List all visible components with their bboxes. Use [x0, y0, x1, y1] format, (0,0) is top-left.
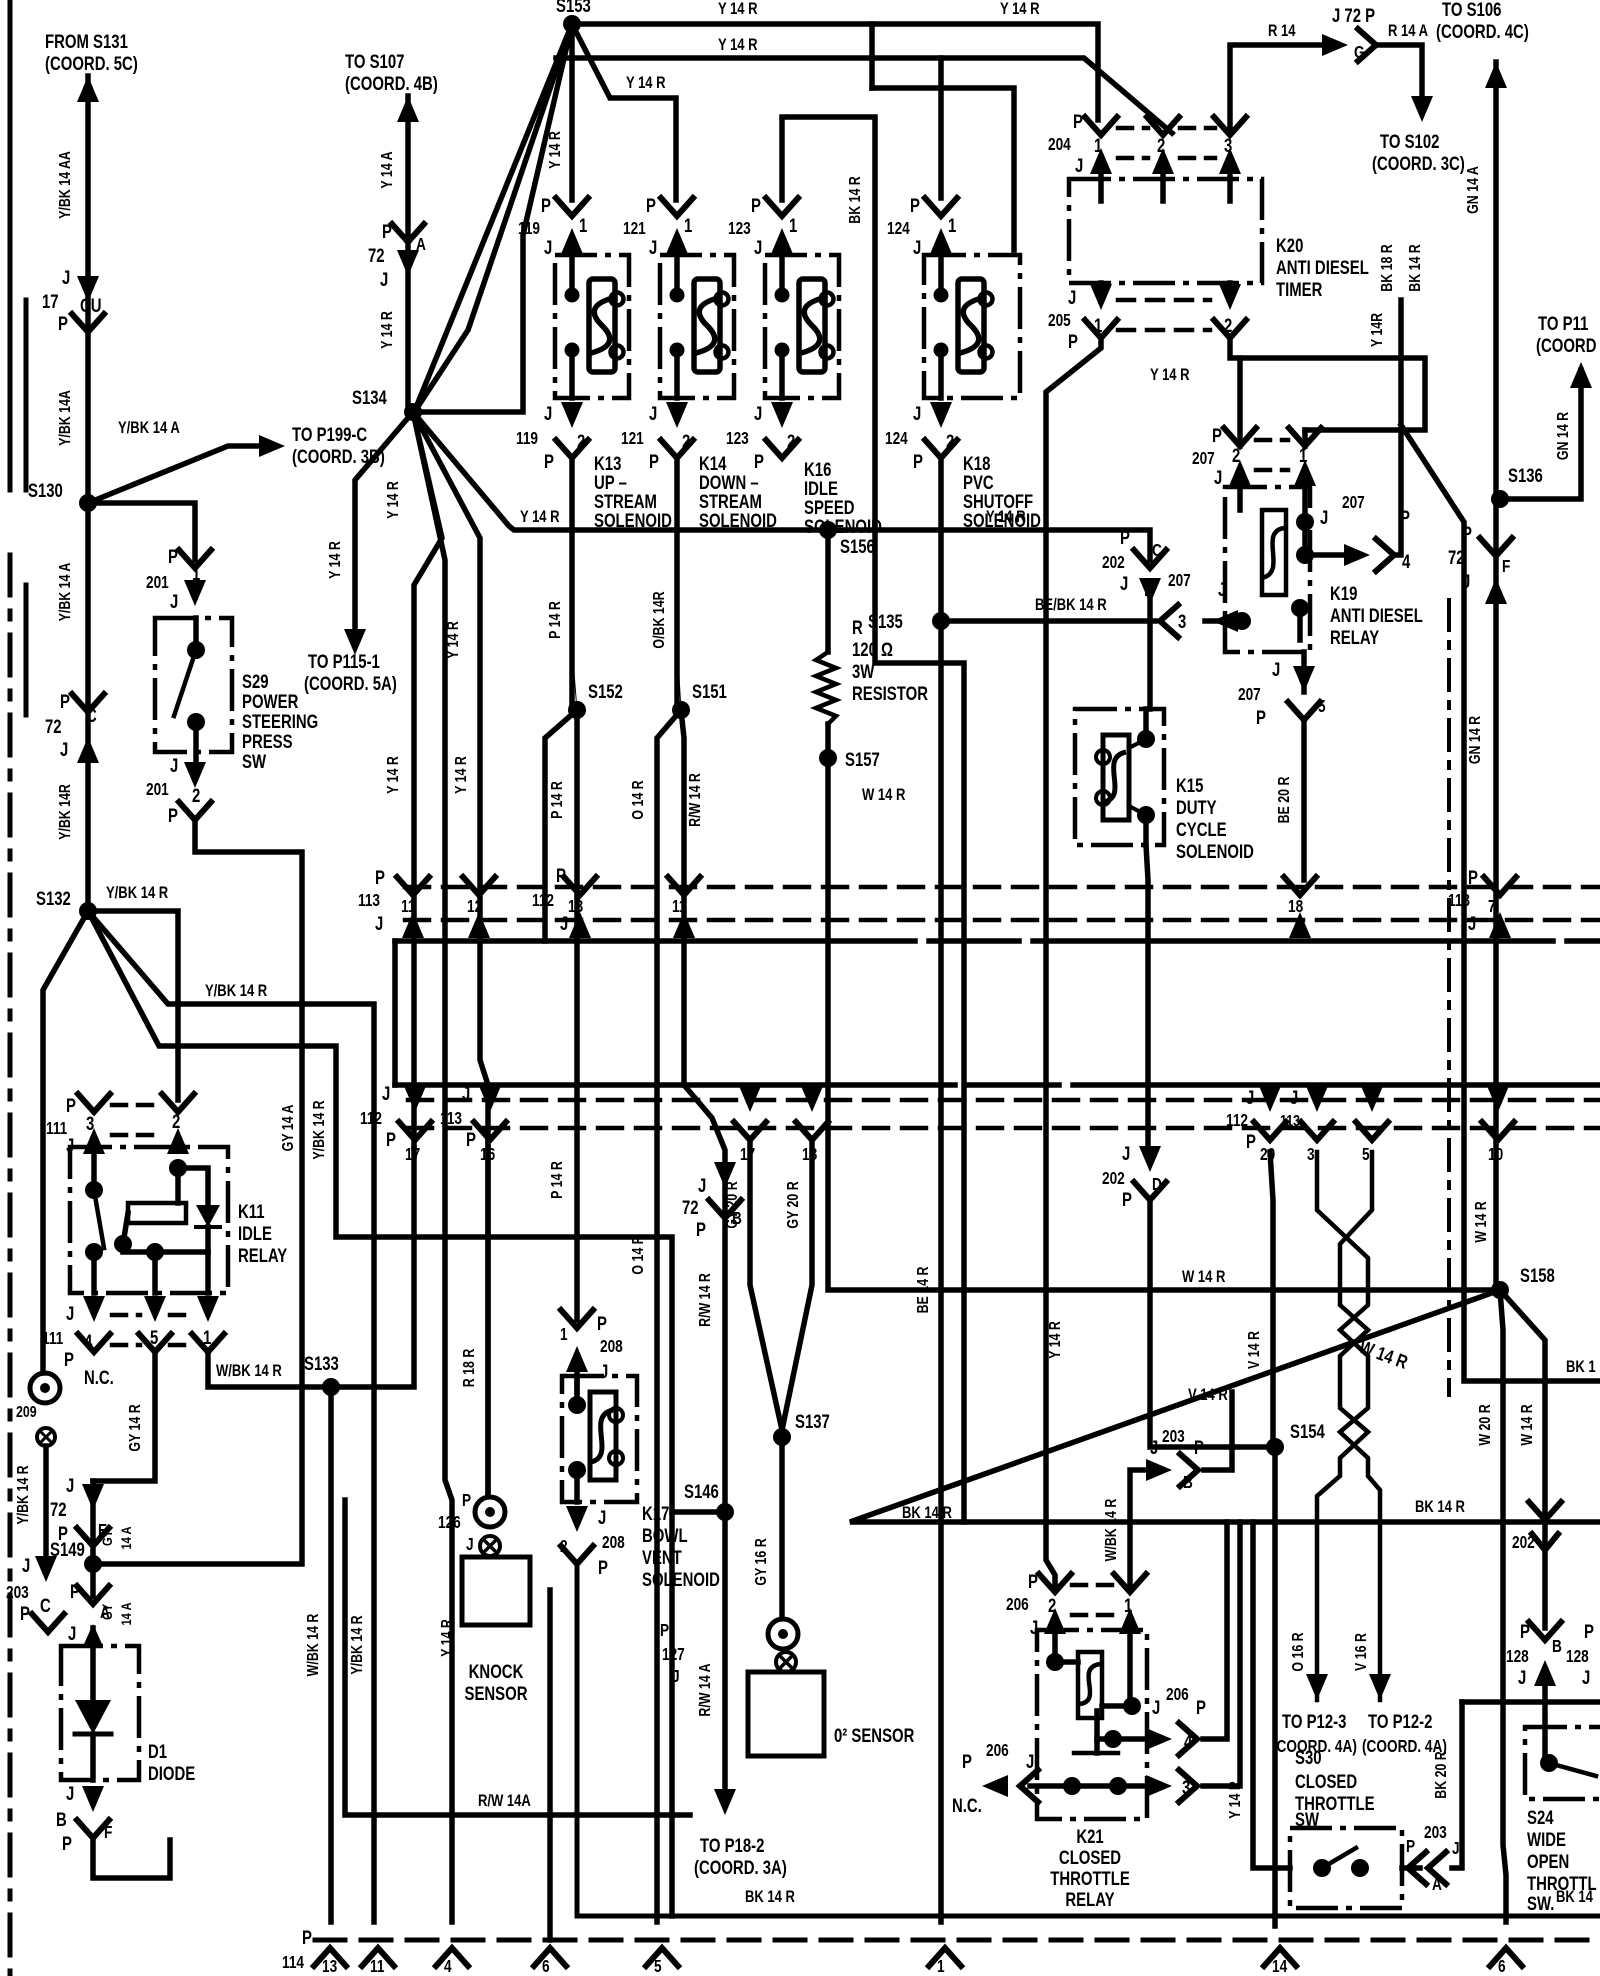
- svg-text:RELAY: RELAY: [1330, 627, 1380, 648]
- svg-text:6: 6: [542, 1958, 550, 1976]
- svg-text:Y/BK 14A: Y/BK 14A: [57, 390, 75, 446]
- svg-text:S137: S137: [795, 1411, 830, 1432]
- svg-text:K15: K15: [1176, 775, 1204, 796]
- svg-text:KNOCK: KNOCK: [469, 1661, 524, 1682]
- svg-text:1: 1: [560, 1326, 568, 1345]
- svg-text:J: J: [68, 1623, 76, 1644]
- svg-text:123: 123: [726, 430, 749, 449]
- svg-text:J: J: [66, 1475, 74, 1496]
- svg-text:BK 14 R: BK 14 R: [1415, 1498, 1465, 1517]
- svg-text:17: 17: [42, 291, 59, 312]
- svg-text:Y 14 R: Y 14 R: [1150, 366, 1190, 385]
- svg-text:2: 2: [577, 431, 585, 452]
- svg-text:P: P: [1468, 867, 1478, 888]
- svg-text:119: 119: [518, 220, 540, 239]
- svg-text:201: 201: [146, 574, 169, 593]
- svg-text:124: 124: [887, 220, 910, 239]
- svg-text:P: P: [751, 195, 761, 216]
- svg-text:C: C: [40, 1595, 51, 1616]
- svg-text:GN 14 A: GN 14 A: [1465, 166, 1483, 214]
- svg-text:VENT: VENT: [642, 1547, 682, 1568]
- svg-text:O/BK 14R: O/BK 14R: [651, 591, 669, 648]
- svg-text:O 14 R: O 14 R: [630, 1235, 648, 1274]
- svg-text:P: P: [466, 1129, 476, 1150]
- svg-text:BK 20 R: BK 20 R: [1433, 1751, 1451, 1799]
- svg-text:Y 14 R: Y 14 R: [1227, 1781, 1245, 1819]
- svg-text:J: J: [1452, 1840, 1460, 1859]
- svg-text:N.C.: N.C.: [952, 1795, 982, 1816]
- svg-text:Y 14 R: Y 14 R: [327, 541, 345, 579]
- svg-text:J: J: [1272, 659, 1280, 680]
- svg-text:P: P: [386, 1129, 396, 1150]
- svg-text:S30: S30: [1295, 1747, 1322, 1768]
- svg-text:S156: S156: [840, 536, 875, 557]
- svg-text:20: 20: [1260, 1146, 1275, 1165]
- svg-text:BK 14 R: BK 14 R: [1407, 244, 1425, 292]
- svg-text:SOLENOID: SOLENOID: [804, 516, 882, 537]
- svg-text:K14: K14: [699, 453, 727, 474]
- svg-text:P: P: [168, 805, 178, 826]
- svg-text:Y 14 R: Y 14 R: [379, 311, 397, 349]
- svg-text:J: J: [1246, 1087, 1254, 1108]
- svg-text:5: 5: [150, 1327, 159, 1348]
- svg-text:18: 18: [1288, 898, 1303, 917]
- svg-text:Y/BK 14 R: Y/BK 14 R: [311, 1100, 329, 1159]
- svg-text:112: 112: [1226, 1112, 1248, 1131]
- svg-text:128: 128: [1566, 1648, 1589, 1667]
- svg-text:K18: K18: [963, 453, 990, 474]
- svg-text:K17: K17: [642, 1503, 669, 1524]
- svg-text:J: J: [672, 1668, 680, 1687]
- svg-text:17: 17: [405, 1146, 420, 1165]
- svg-text:CLOSED: CLOSED: [1059, 1847, 1121, 1868]
- svg-text:SW: SW: [242, 751, 267, 772]
- svg-text:W 14 R: W 14 R: [1182, 1268, 1226, 1287]
- svg-text:Y/BK 14 A: Y/BK 14 A: [118, 419, 180, 438]
- svg-text:Y 14 R: Y 14 R: [1000, 0, 1040, 18]
- svg-text:1: 1: [192, 563, 201, 584]
- svg-text:3: 3: [1178, 611, 1186, 632]
- svg-text:Y 14R: Y 14R: [1369, 313, 1387, 347]
- svg-text:TO P199-C: TO P199-C: [292, 424, 367, 445]
- svg-text:112: 112: [532, 892, 554, 911]
- svg-text:P: P: [70, 1581, 80, 1602]
- svg-text:GY 20 R: GY 20 R: [785, 1181, 803, 1228]
- svg-text:S135: S135: [868, 611, 903, 632]
- svg-text:P: P: [60, 691, 70, 712]
- svg-text:P: P: [646, 195, 656, 216]
- svg-text:201: 201: [146, 781, 169, 800]
- svg-text:Y/BK 14 AA: Y/BK 14 AA: [57, 151, 75, 219]
- svg-text:120 Ω: 120 Ω: [852, 639, 893, 660]
- svg-text:BK 14 R: BK 14 R: [745, 1888, 795, 1907]
- svg-text:STREAM: STREAM: [699, 491, 762, 512]
- svg-text:STREAM: STREAM: [594, 491, 657, 512]
- svg-text:J: J: [1290, 1087, 1298, 1108]
- svg-text:PRESS: PRESS: [242, 731, 293, 752]
- svg-text:Y/BK 14 R: Y/BK 14 R: [106, 884, 168, 903]
- svg-text:TO P115-1: TO P115-1: [308, 651, 380, 672]
- svg-text:113: 113: [1280, 1113, 1300, 1131]
- svg-text:P: P: [696, 1219, 706, 1240]
- svg-text:A: A: [416, 236, 426, 255]
- svg-text:J: J: [544, 403, 552, 424]
- svg-text:P: P: [1584, 1621, 1594, 1642]
- svg-text:4: 4: [84, 1331, 93, 1352]
- svg-text:UP –: UP –: [594, 472, 627, 493]
- svg-text:126: 126: [438, 1514, 461, 1533]
- svg-text:TO S102: TO S102: [1380, 131, 1439, 152]
- svg-text:SHUTOFF: SHUTOFF: [963, 491, 1033, 512]
- svg-text:SOLENOID: SOLENOID: [699, 510, 777, 531]
- svg-text:123: 123: [728, 220, 751, 239]
- svg-text:203: 203: [1162, 1428, 1185, 1447]
- svg-text:113: 113: [358, 892, 380, 911]
- svg-text:14 A: 14 A: [118, 1602, 135, 1625]
- svg-text:GY: GY: [99, 1604, 116, 1621]
- svg-text:Y 14 R: Y 14 R: [520, 508, 560, 527]
- svg-text:R/W 14 R: R/W 14 R: [687, 773, 705, 827]
- svg-text:111: 111: [42, 1330, 64, 1349]
- svg-text:SENSOR: SENSOR: [465, 1683, 528, 1704]
- svg-text:72: 72: [1448, 547, 1465, 568]
- svg-text:128: 128: [1506, 1648, 1529, 1667]
- svg-text:BK 14 R: BK 14 R: [902, 1504, 952, 1523]
- svg-text:RESISTOR: RESISTOR: [852, 683, 928, 704]
- svg-text:R/W 14 A: R/W 14 A: [697, 1663, 715, 1716]
- svg-text:2: 2: [787, 431, 795, 452]
- svg-text:A: A: [1432, 1876, 1442, 1895]
- svg-text:R 18 R: R 18 R: [461, 1349, 479, 1388]
- svg-text:12: 12: [467, 898, 482, 917]
- svg-text:203: 203: [1424, 1824, 1447, 1843]
- svg-text:W/BK 14 R: W/BK 14 R: [305, 1614, 323, 1677]
- svg-text:CU: CU: [80, 295, 102, 316]
- svg-text:B: B: [1183, 1474, 1193, 1493]
- svg-text:S133: S133: [304, 1353, 339, 1374]
- svg-text:P: P: [302, 1927, 312, 1948]
- svg-text:0² SENSOR: 0² SENSOR: [834, 1725, 914, 1746]
- svg-text:POWER: POWER: [242, 691, 298, 712]
- svg-text:W/BK 14 R: W/BK 14 R: [216, 1362, 282, 1381]
- svg-text:11: 11: [672, 898, 687, 917]
- svg-text:S24: S24: [1527, 1807, 1554, 1828]
- svg-text:P: P: [64, 1349, 74, 1370]
- svg-text:J: J: [170, 755, 178, 776]
- svg-text:114: 114: [282, 1954, 304, 1973]
- svg-text:J: J: [649, 403, 657, 424]
- svg-text:J: J: [462, 1083, 470, 1104]
- svg-text:P: P: [541, 195, 551, 216]
- svg-text:P: P: [58, 313, 68, 334]
- svg-text:P: P: [1194, 1437, 1204, 1458]
- svg-text:72: 72: [682, 1197, 699, 1218]
- svg-text:P: P: [1068, 331, 1078, 352]
- svg-text:SOLENOID: SOLENOID: [642, 1569, 720, 1590]
- svg-text:13: 13: [322, 1958, 337, 1976]
- svg-text:J: J: [1152, 1697, 1160, 1718]
- svg-text:P: P: [1212, 425, 1222, 446]
- svg-text:P: P: [913, 451, 923, 472]
- svg-text:J: J: [62, 267, 70, 288]
- svg-text:V 14 R: V 14 R: [1246, 1331, 1264, 1369]
- svg-text:(COORD. 5C): (COORD. 5C): [45, 53, 138, 74]
- svg-text:2: 2: [192, 785, 200, 806]
- svg-text:P: P: [556, 865, 566, 886]
- svg-text:GY 14 R: GY 14 R: [127, 1404, 145, 1451]
- svg-text:J: J: [60, 739, 68, 760]
- svg-text:127: 127: [662, 1646, 685, 1665]
- svg-text:P: P: [375, 867, 385, 888]
- svg-text:CYCLE: CYCLE: [1176, 819, 1227, 840]
- svg-text:(COORD: (COORD: [1536, 335, 1596, 356]
- svg-text:BK 1: BK 1: [1566, 1358, 1596, 1377]
- svg-text:WIDE: WIDE: [1527, 1829, 1566, 1850]
- svg-text:SOLENOID: SOLENOID: [963, 510, 1041, 531]
- svg-text:GN 14 R: GN 14 R: [1467, 716, 1485, 764]
- svg-text:P: P: [382, 221, 392, 242]
- svg-text:TO P12-3: TO P12-3: [1282, 1711, 1346, 1732]
- svg-text:3: 3: [1182, 1777, 1190, 1798]
- svg-text:13: 13: [568, 898, 583, 917]
- svg-text:207: 207: [1342, 494, 1365, 513]
- svg-text:J: J: [1026, 1751, 1034, 1772]
- svg-text:SPEED: SPEED: [804, 497, 855, 518]
- svg-text:W 14 R: W 14 R: [1519, 1404, 1537, 1445]
- svg-text:TO S106: TO S106: [1442, 0, 1501, 20]
- svg-text:Y/BK 14 R: Y/BK 14 R: [349, 1615, 367, 1674]
- svg-text:(COORD. 4C): (COORD. 4C): [1436, 21, 1529, 42]
- svg-text:203: 203: [6, 1584, 29, 1603]
- svg-text:S158: S158: [1520, 1265, 1555, 1286]
- svg-text:DIODE: DIODE: [148, 1763, 195, 1784]
- svg-text:C: C: [1152, 542, 1162, 561]
- svg-text:THROTTLE: THROTTLE: [1050, 1868, 1130, 1889]
- svg-text:B: B: [1552, 1638, 1562, 1657]
- svg-text:BK 18 R: BK 18 R: [1379, 244, 1397, 292]
- svg-text:J: J: [66, 1303, 74, 1324]
- svg-text:STEERING: STEERING: [242, 711, 318, 732]
- svg-text:J: J: [466, 1536, 474, 1555]
- svg-text:P: P: [1520, 1621, 1530, 1642]
- svg-text:W/BK 14 R: W/BK 14 R: [1103, 1499, 1121, 1562]
- svg-text:J: J: [66, 1783, 74, 1804]
- svg-text:P: P: [649, 451, 659, 472]
- svg-text:F: F: [104, 1824, 112, 1843]
- svg-text:72: 72: [368, 245, 385, 266]
- svg-text:Y 14 R: Y 14 R: [453, 756, 471, 794]
- svg-text:J: J: [913, 403, 921, 424]
- svg-text:1: 1: [948, 215, 957, 236]
- svg-text:206: 206: [1166, 1686, 1189, 1705]
- svg-text:J: J: [1150, 1437, 1158, 1458]
- svg-text:Y 14 A: Y 14 A: [379, 151, 397, 188]
- svg-text:P 14 R: P 14 R: [549, 1161, 567, 1199]
- svg-text:6: 6: [1498, 1958, 1506, 1976]
- svg-text:208: 208: [600, 1338, 623, 1357]
- svg-text:112: 112: [360, 1110, 382, 1129]
- svg-text:1: 1: [1094, 315, 1103, 336]
- svg-text:P: P: [1462, 523, 1472, 544]
- svg-text:K21: K21: [1076, 1826, 1104, 1847]
- svg-text:W 14 R: W 14 R: [1473, 1201, 1491, 1242]
- svg-text:DUTY: DUTY: [1176, 797, 1217, 818]
- svg-text:2: 2: [1157, 135, 1165, 156]
- svg-text:14: 14: [1272, 1958, 1287, 1976]
- svg-text:Y 14 R: Y 14 R: [385, 481, 403, 519]
- svg-text:N.C.: N.C.: [84, 1367, 114, 1388]
- svg-text:Y 14 R: Y 14 R: [445, 621, 463, 659]
- svg-text:J: J: [170, 591, 178, 612]
- svg-text:119: 119: [516, 430, 538, 449]
- svg-text:O 16 R: O 16 R: [1290, 1632, 1308, 1671]
- svg-text:J: J: [382, 1083, 390, 1104]
- svg-text:R/W 14 R: R/W 14 R: [697, 1273, 715, 1327]
- svg-text:BOWL: BOWL: [642, 1525, 688, 1546]
- svg-text:Y/BK 14 R: Y/BK 14 R: [15, 1465, 33, 1524]
- svg-text:DOWN –: DOWN –: [699, 472, 759, 493]
- svg-text:Y 14 R: Y 14 R: [626, 74, 666, 93]
- svg-text:4: 4: [1184, 1731, 1193, 1752]
- svg-text:2: 2: [946, 431, 954, 452]
- svg-text:1: 1: [937, 1958, 945, 1976]
- svg-text:J: J: [380, 269, 388, 290]
- svg-text:3: 3: [86, 1113, 94, 1134]
- svg-text:P 14 R: P 14 R: [549, 781, 567, 819]
- svg-text:CLOSED: CLOSED: [1295, 1771, 1357, 1792]
- svg-text:S157: S157: [845, 749, 880, 770]
- svg-text:S146: S146: [684, 1481, 719, 1502]
- svg-text:P: P: [1028, 1571, 1038, 1592]
- svg-text:3: 3: [1224, 135, 1232, 156]
- svg-text:P: P: [1120, 527, 1130, 548]
- svg-text:4: 4: [444, 1958, 452, 1976]
- svg-text:Y 14 R: Y 14 R: [547, 131, 565, 169]
- svg-text:1: 1: [579, 215, 588, 236]
- svg-text:P: P: [660, 1622, 669, 1641]
- svg-text:207: 207: [1168, 572, 1191, 591]
- svg-text:O 14 R: O 14 R: [630, 780, 648, 819]
- svg-text:P: P: [462, 1492, 471, 1511]
- svg-text:W 20 R: W 20 R: [1477, 1404, 1495, 1445]
- svg-text:SW.: SW.: [1527, 1893, 1554, 1914]
- svg-text:S151: S151: [692, 681, 727, 702]
- svg-text:J: J: [649, 237, 657, 258]
- svg-text:TIMER: TIMER: [1276, 279, 1322, 300]
- svg-text:K19: K19: [1330, 583, 1357, 604]
- svg-text:R/W 14A: R/W 14A: [478, 1792, 531, 1811]
- svg-text:72: 72: [45, 716, 62, 737]
- svg-text:R: R: [852, 617, 863, 638]
- svg-text:TO P11: TO P11: [1538, 313, 1589, 334]
- svg-text:2: 2: [682, 431, 690, 452]
- svg-text:K20: K20: [1276, 235, 1303, 256]
- svg-text:3: 3: [1307, 1146, 1315, 1165]
- svg-text:1: 1: [1094, 135, 1103, 156]
- svg-text:F: F: [1502, 558, 1510, 577]
- svg-text:Y/BK 14 A: Y/BK 14 A: [57, 563, 75, 622]
- svg-text:GY 14 A: GY 14 A: [280, 1105, 298, 1152]
- svg-text:J: J: [913, 237, 921, 258]
- svg-text:P: P: [544, 451, 554, 472]
- svg-text:1: 1: [684, 215, 693, 236]
- svg-text:S153: S153: [556, 0, 591, 16]
- svg-text:206: 206: [1006, 1596, 1029, 1615]
- svg-text:Y/BK 14 R: Y/BK 14 R: [205, 982, 267, 1001]
- svg-text:GY 20 R: GY 20 R: [724, 1181, 742, 1228]
- svg-text:J: J: [600, 1361, 608, 1382]
- svg-text:BK 14 R: BK 14 R: [847, 176, 865, 224]
- svg-text:1: 1: [203, 1327, 212, 1348]
- svg-text:J: J: [1122, 1143, 1130, 1164]
- svg-text:5: 5: [999, 1777, 1008, 1798]
- svg-text:(COORD. 4A): (COORD. 4A): [1362, 1738, 1447, 1757]
- svg-text:113: 113: [1448, 892, 1470, 911]
- svg-text:J: J: [698, 1175, 706, 1196]
- svg-text:B: B: [56, 1809, 67, 1830]
- svg-text:5: 5: [654, 1958, 662, 1976]
- svg-text:S29: S29: [242, 671, 269, 692]
- svg-text:124: 124: [885, 430, 908, 449]
- svg-text:OPEN: OPEN: [1527, 1851, 1569, 1872]
- svg-text:14 A: 14 A: [118, 1526, 135, 1549]
- svg-text:P: P: [597, 1313, 607, 1334]
- svg-text:J: J: [1320, 507, 1328, 528]
- svg-text:S130: S130: [28, 480, 63, 501]
- svg-text:2: 2: [1224, 315, 1232, 336]
- svg-text:PVC: PVC: [963, 472, 994, 493]
- svg-text:11: 11: [401, 898, 416, 917]
- svg-text:J: J: [1462, 571, 1470, 592]
- svg-text:J 72 P: J 72 P: [1332, 5, 1375, 26]
- svg-text:P 14 R: P 14 R: [547, 601, 565, 639]
- svg-text:2: 2: [172, 1111, 180, 1132]
- svg-text:P: P: [1196, 1697, 1206, 1718]
- svg-text:J: J: [598, 1507, 606, 1528]
- svg-text:(COORD. 3C): (COORD. 3C): [1372, 153, 1465, 174]
- svg-text:IDLE: IDLE: [238, 1223, 272, 1244]
- svg-text:205: 205: [1048, 312, 1071, 331]
- svg-text:207: 207: [1192, 450, 1215, 469]
- svg-text:Y/BK 14R: Y/BK 14R: [57, 784, 75, 840]
- svg-text:Y 14 R: Y 14 R: [718, 0, 758, 18]
- svg-text:TO S107: TO S107: [345, 51, 404, 72]
- svg-text:J: J: [22, 1555, 30, 1576]
- svg-text:P: P: [62, 1833, 72, 1854]
- svg-text:D1: D1: [148, 1741, 168, 1762]
- svg-text:206: 206: [986, 1742, 1009, 1761]
- svg-text:J: J: [1120, 573, 1128, 594]
- svg-text:(COORD. 5A): (COORD. 5A): [304, 673, 397, 694]
- svg-text:P: P: [1122, 1189, 1132, 1210]
- svg-text:FROM S131: FROM S131: [45, 31, 128, 52]
- svg-text:P: P: [58, 1523, 68, 1544]
- svg-text:TO P12-2: TO P12-2: [1368, 1711, 1432, 1732]
- svg-text:11: 11: [370, 1958, 385, 1976]
- svg-text:J: J: [754, 403, 762, 424]
- svg-text:J: J: [754, 237, 762, 258]
- svg-text:P: P: [598, 1557, 608, 1578]
- svg-text:J: J: [1468, 913, 1476, 934]
- svg-text:K13: K13: [594, 453, 621, 474]
- svg-text:S134: S134: [352, 387, 387, 408]
- svg-text:121: 121: [621, 430, 644, 449]
- svg-text:TO P18-2: TO P18-2: [700, 1835, 764, 1856]
- svg-text:ANTI DIESEL: ANTI DIESEL: [1330, 605, 1423, 626]
- svg-text:1: 1: [1124, 1595, 1133, 1616]
- svg-text:S132: S132: [36, 888, 71, 909]
- svg-text:V 16 R: V 16 R: [1353, 1633, 1371, 1671]
